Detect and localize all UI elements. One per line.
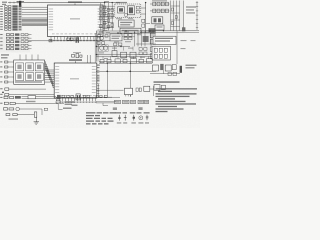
capacitor bank box — [152, 46, 170, 60]
junction dot left margin — [2, 91, 4, 93]
U3 internal gate cluster 6 — [35, 73, 43, 81]
resistor R30 — [62, 96, 65, 98]
U3 internal gate cluster 1 — [16, 63, 24, 71]
power row 2 — [0, 101, 58, 105]
U3 internal gate cluster 5 — [26, 73, 34, 81]
resistor pair R50 — [136, 88, 141, 91]
resistors inside modulator — [125, 6, 140, 16]
U3 left pin rows — [0, 61, 14, 83]
horizontal rungs between power rails — [171, 6, 180, 27]
wire power horizontal — [150, 73, 180, 75]
small caps on rails — [171, 8, 177, 25]
fuse F1 — [57, 95, 61, 99]
capacitor C20 — [9, 118, 19, 119]
regulator VR1 on wires — [28, 96, 36, 99]
extra caps on vertical column top-middle — [99, 6, 114, 28]
wire vertical drop A — [106, 63, 108, 97]
resistor R33 — [104, 95, 107, 97]
address bus wires into U1 — [22, 7, 48, 25]
U2 bottom pins and labels — [56, 98, 97, 103]
antenna connector J1 — [17, 1, 25, 8]
IC U2 ROM — [54, 63, 97, 98]
wire y90 horizontal — [96, 89, 124, 91]
wire mid center — [96, 46, 130, 48]
wire stub down — [58, 104, 71, 110]
resistor R10 R11 on center wire — [67, 38, 73, 40]
wire vertical drop B — [129, 63, 131, 97]
wire stubs above U2 — [88, 55, 91, 63]
box U6 — [110, 34, 122, 41]
U1 internal pin name smudges — [49, 9, 103, 35]
tiny part labels center — [98, 31, 145, 59]
transistor Q11 — [97, 35, 108, 41]
label U2 — [69, 59, 82, 63]
wire stubs modulator to rails — [141, 8, 150, 24]
legend switch symbol — [146, 115, 149, 120]
diode D5 — [182, 27, 185, 31]
legend header text row — [116, 112, 150, 113]
U3 bottom label row — [15, 81, 42, 83]
wire branch — [56, 101, 61, 104]
tiny labels top-middle — [99, 1, 133, 32]
wire horizontal pair right — [140, 31, 199, 33]
wire vertical left leg — [98, 84, 120, 97]
transistor Q10 — [128, 6, 135, 15]
capacitor C5 — [76, 37, 79, 43]
buffer box U3 — [14, 60, 45, 84]
capacitor C32 C33 — [96, 95, 102, 97]
wire to notes — [150, 88, 154, 90]
transformer T1 — [155, 25, 164, 30]
keyboard rows with transistors Q1-Q5 — [0, 33, 31, 50]
RAM box text smudges — [115, 101, 148, 102]
wire label row — [56, 101, 75, 105]
taps from bus down to component row — [103, 56, 149, 59]
row 4 components — [6, 112, 37, 117]
bus wires center double — [96, 31, 156, 33]
wires y36 extra — [96, 36, 156, 44]
wire bend bottom center — [103, 103, 108, 106]
label U1 — [68, 1, 82, 5]
wire vertical center-left connecting buses — [96, 31, 98, 62]
rectifier cluster right — [153, 64, 177, 71]
connector CN1 pin rows with resistors — [0, 5, 21, 30]
wire pair lower center — [96, 55, 156, 57]
node junction A — [106, 70, 108, 72]
bus bends B1 to U2 — [45, 62, 55, 88]
fuse F2 dark bar — [180, 66, 182, 73]
wire long center horizontal — [28, 40, 95, 42]
top line extension with ticks — [8, 2, 21, 4]
component row under — [112, 51, 136, 58]
wire vertical right of modulator — [145, 2, 147, 33]
labels power right — [186, 65, 197, 69]
wire verticals above buffer box — [20, 55, 38, 61]
capacitor C45 C46 — [150, 33, 155, 44]
component row on bus y61 — [99, 59, 153, 64]
extra small parts row y47-58 — [139, 48, 147, 55]
smudge overlays scan texture — [12, 5, 22, 31]
extra parts in center band — [97, 42, 122, 46]
capacitor row 1 top right — [150, 0, 170, 6]
wire vertical right tall — [176, 31, 178, 64]
wire top horizontal bus — [21, 2, 120, 4]
note box two lines — [153, 36, 176, 44]
parts list table — [86, 112, 116, 124]
wire lower center verticals — [115, 47, 134, 51]
IC U1 CPU — [48, 5, 104, 37]
small labels right — [181, 40, 196, 49]
capacitor C30 C31 — [83, 95, 89, 97]
extra parts right-mid cluster — [164, 70, 177, 76]
resistor R12 — [49, 40, 52, 42]
legend battery symbol — [124, 115, 127, 121]
power row 1 with diode D1 — [0, 96, 21, 99]
U1 bottom pin stubs and labels — [50, 37, 102, 42]
vertical wires center — [135, 31, 145, 46]
resistor R20 — [44, 108, 47, 110]
noise filter overlay — [0, 0, 1, 1]
legend diode symbol — [133, 115, 135, 121]
wire right vertical — [183, 1, 185, 29]
rows below U3 — [0, 88, 46, 90]
label CN2 — [1, 54, 9, 58]
vertical power rails — [171, 1, 180, 31]
label top-left corner marks — [2, 2, 7, 5]
resistor group R40 — [124, 34, 132, 40]
resistor R31 — [67, 96, 70, 98]
RF modulator dashed shield box — [115, 4, 141, 17]
label +5V left — [96, 65, 100, 82]
legend lamp symbol — [139, 116, 143, 120]
U2 internal pin name smudges — [55, 66, 96, 96]
wire center extend — [95, 40, 110, 42]
bridge rectifier BR1 — [152, 17, 163, 24]
capacitor near modulator output — [142, 19, 145, 27]
U1 right pin stubs — [103, 8, 114, 31]
U3 internal gate cluster 4 — [16, 73, 24, 81]
vertical wires with caps left of modulator — [100, 5, 114, 31]
notes text block — [154, 86, 198, 112]
small marks under RAM row — [113, 107, 143, 110]
IC U7 small — [125, 88, 133, 96]
RAM label box row — [96, 100, 149, 103]
legend labels row — [117, 122, 149, 123]
capacitor C40 cluster — [149, 28, 156, 32]
capacitor pair right — [150, 47, 155, 58]
wire pair bottom — [22, 97, 57, 99]
capacitor row 2 top right — [150, 9, 170, 13]
U2 right pin stubs — [97, 65, 100, 94]
coil L1 — [118, 7, 125, 13]
diode cluster lower — [154, 85, 165, 91]
power row 3 with transistor Q6 — [4, 107, 43, 115]
video amp box U5 — [120, 28, 141, 33]
row CN3 — [0, 94, 54, 96]
label modulator — [116, 2, 127, 3]
scattered junction dots — [96, 2, 164, 64]
U3 internal gate cluster 3 — [35, 63, 43, 71]
main supply wire — [56, 96, 112, 98]
connector P1 — [76, 94, 80, 100]
box small right — [144, 86, 150, 91]
legend capacitor symbol — [118, 115, 121, 121]
node dots on top bus — [104, 2, 113, 3]
video circuit box U4 — [119, 20, 135, 27]
U3 internal gate cluster 2 — [26, 63, 34, 71]
right edge tick line — [196, 1, 198, 30]
wire y101 light — [96, 101, 116, 103]
resistor R32 — [71, 96, 74, 98]
caption power supply — [154, 81, 180, 83]
labels right margin — [186, 6, 196, 13]
wire verticals from top bus — [101, 3, 112, 5]
wire long horizontal y71 — [96, 70, 156, 72]
label near wire bend — [72, 105, 78, 106]
coil L2 transformer — [99, 45, 109, 51]
wire verticals right of U1 going down — [95, 33, 98, 63]
crystal X1 cluster above U2 — [72, 53, 83, 58]
ground symbol — [34, 117, 39, 124]
wire stubs right-mid connects — [151, 31, 153, 47]
node junction B — [129, 70, 131, 72]
dark component cluster — [143, 36, 149, 42]
